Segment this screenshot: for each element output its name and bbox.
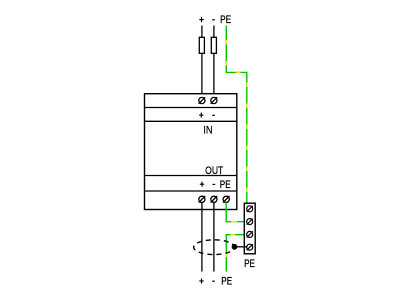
terminal IN - — [211, 97, 218, 104]
separator line 2 — [145, 120, 237, 122]
svg-text:OUT: OUT — [205, 165, 223, 177]
block terminal 4 — [247, 244, 253, 250]
separator line 1 — [145, 107, 237, 109]
wire - input — [213, 26, 215, 98]
label OUT — [205, 165, 223, 177]
cable shield ellipse — [194, 240, 235, 255]
label PE (top input) — [220, 14, 231, 27]
label + (OUT strip) — [200, 182, 204, 187]
terminal IN + — [199, 97, 206, 104]
wire PE output cable — [226, 235, 246, 272]
label - (bottom output) — [212, 280, 215, 282]
wire + output — [201, 202, 203, 271]
label + (bottom output) — [199, 278, 203, 283]
label + (IN strip) — [199, 113, 203, 118]
svg-text:PE: PE — [220, 179, 231, 192]
fuse F1 — [199, 37, 204, 53]
terminal OUT + — [199, 196, 206, 203]
svg-text:PE: PE — [220, 14, 231, 27]
label - (IN strip) — [212, 114, 215, 116]
block terminal 2 — [247, 219, 253, 225]
label IN — [203, 125, 212, 137]
terminal OUT PE — [223, 196, 230, 203]
label PE (terminal block) — [244, 258, 255, 271]
wire - output — [213, 202, 215, 271]
wire + input — [201, 26, 203, 98]
power supply box — [145, 94, 237, 210]
svg-text:PE: PE — [221, 275, 232, 288]
PE terminal block — [244, 203, 255, 254]
label PE (bottom output) — [221, 275, 232, 288]
block terminal 3 — [247, 231, 253, 237]
label - (top input) — [212, 19, 215, 21]
svg-text:IN: IN — [203, 125, 212, 137]
wire PE input (green/yellow) — [226, 26, 247, 204]
fuse F2 — [211, 37, 216, 53]
label - (OUT strip) — [212, 183, 215, 185]
wire PE from box to terminal block — [226, 202, 247, 221]
block terminal 1 — [247, 206, 253, 212]
shield junction dot — [232, 244, 238, 250]
label + (top input) — [199, 17, 203, 22]
shield wire to block — [235, 246, 247, 248]
svg-text:PE: PE — [244, 258, 255, 271]
separator line 4 — [145, 190, 237, 192]
label PE (OUT strip) — [220, 179, 231, 192]
separator line 3 — [145, 175, 237, 177]
terminal OUT - — [211, 196, 218, 203]
